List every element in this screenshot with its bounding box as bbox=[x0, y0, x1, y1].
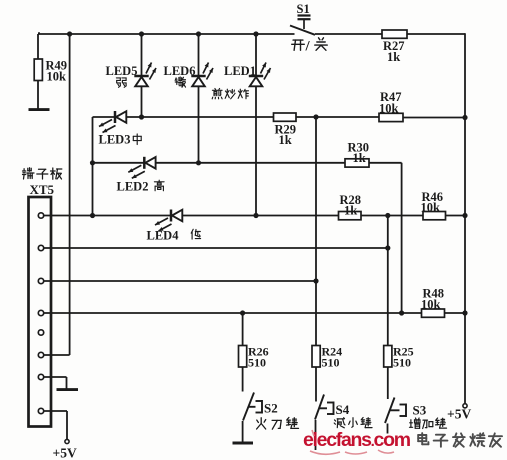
LED4 label bbox=[147, 229, 201, 243]
terminal +5V left bbox=[65, 439, 69, 443]
wire T8 row bbox=[44, 411, 67, 439]
wire R28 to R46 bbox=[361, 215, 423, 217]
wire R49 bottom bbox=[37, 81, 39, 109]
wire T1 row mid bbox=[182, 215, 338, 217]
resistor R28 bbox=[339, 212, 362, 220]
wire x388 upper bbox=[387, 216, 389, 346]
S4 function label 减小键 bbox=[334, 418, 372, 428]
node left-rail/LED2 junction bbox=[90, 160, 95, 165]
resistor R30 bbox=[345, 159, 369, 167]
wire R49 top bbox=[38, 33, 40, 59]
svg-text:10k: 10k bbox=[47, 70, 67, 84]
svg-text:S4: S4 bbox=[336, 402, 350, 417]
node T4/R26 junction bbox=[240, 310, 245, 315]
R24 value label bbox=[322, 345, 343, 370]
svg-text:LED3: LED3 bbox=[99, 133, 131, 147]
LED6 label bbox=[164, 64, 196, 78]
wire left rail x=92.5 bbox=[92, 117, 94, 216]
svg-text:LED1: LED1 bbox=[224, 64, 256, 78]
wire T6 row bbox=[44, 354, 70, 356]
wire T2 row bbox=[44, 247, 388, 249]
svg-text:1k: 1k bbox=[353, 151, 366, 165]
svg-text:10k: 10k bbox=[421, 201, 441, 215]
+5V right label bbox=[447, 407, 471, 422]
watermark red accents bbox=[310, 430, 394, 454]
wire R46 to rail bbox=[446, 215, 466, 217]
node LED1/LED4-wire junction bbox=[253, 213, 258, 218]
node T3/R24-branch junction bbox=[313, 278, 318, 283]
R48 value label bbox=[421, 287, 444, 312]
switch S3 blade bbox=[385, 398, 395, 424]
switch S1 actuator bbox=[298, 16, 311, 30]
wire below S2 bbox=[242, 421, 244, 443]
terminal XT5 pin8 bbox=[38, 408, 43, 413]
node R28/R25-branch junction bbox=[385, 213, 390, 218]
switch S1 label bbox=[297, 2, 310, 16]
wire T4 row bbox=[44, 312, 422, 314]
ground at T7 bbox=[57, 388, 79, 391]
node LED3-row/x316 junction bbox=[313, 114, 318, 119]
wire T1 row left bbox=[44, 215, 171, 217]
wire x243 upper bbox=[242, 313, 244, 346]
node top wire / LED6 junction bbox=[196, 31, 201, 36]
resistor R47 bbox=[379, 113, 403, 121]
wire LED1 riser upper bbox=[255, 34, 257, 76]
wire R30 right bbox=[369, 162, 402, 164]
R28 value label bbox=[340, 193, 362, 218]
svg-text:10k: 10k bbox=[379, 102, 399, 116]
wire R47 to rail bbox=[403, 117, 465, 119]
LED1 label bbox=[224, 64, 256, 78]
LED3 label bbox=[99, 133, 142, 147]
switch S3 actuator bbox=[391, 404, 407, 418]
watermark elecfans.com bbox=[303, 429, 411, 451]
wire LED3 row left bbox=[93, 116, 116, 118]
wire below S3 bbox=[387, 424, 389, 434]
wire LED3 row mid bbox=[126, 116, 273, 118]
svg-text:S2: S2 bbox=[264, 401, 278, 416]
LED LED1 bbox=[249, 63, 271, 87]
node rail/R48 junction bbox=[462, 310, 467, 315]
LED5 function label 弱 bbox=[116, 78, 126, 87]
svg-text:LED2: LED2 bbox=[117, 180, 149, 194]
wire LED1 riser lower bbox=[255, 86, 257, 215]
svg-text:510: 510 bbox=[393, 356, 411, 370]
svg-text:10k: 10k bbox=[421, 298, 441, 312]
resistor R27 bbox=[382, 30, 407, 38]
wire below S4 bbox=[315, 420, 317, 450]
R30 value label bbox=[348, 141, 370, 166]
R46 value label bbox=[421, 190, 444, 215]
wire LED5 riser lower bbox=[141, 86, 143, 117]
LED2 label bbox=[117, 180, 165, 194]
node R30-branch/T4 junction bbox=[399, 310, 404, 315]
S3 function label 增加键 bbox=[410, 418, 447, 429]
S4 label bbox=[336, 402, 350, 417]
switch S2 blade bbox=[243, 393, 254, 421]
LED LED4 bbox=[155, 210, 182, 232]
node LED3-row/LED5 junction bbox=[139, 114, 144, 119]
R25 value label bbox=[393, 345, 414, 370]
svg-text:510: 510 bbox=[322, 356, 340, 370]
LED1 function label 煎炒炸 bbox=[212, 89, 248, 99]
switch S4 actuator bbox=[320, 402, 334, 416]
resistor R49 bbox=[34, 59, 42, 81]
wire T3 row bbox=[44, 280, 316, 282]
node rail/R46 junction bbox=[462, 213, 467, 218]
switch S1 function label 开/关 bbox=[292, 38, 328, 55]
node top wire / LED5 junction bbox=[139, 31, 144, 36]
node LED2-row/LED6 junction bbox=[196, 160, 201, 165]
S2 label bbox=[264, 401, 278, 416]
wire R48 to rail bbox=[445, 312, 466, 314]
LED LED3 bbox=[99, 111, 126, 133]
wire LED5 riser upper bbox=[141, 34, 143, 76]
wire top rail y=34 bbox=[38, 33, 465, 35]
LED LED5 bbox=[134, 63, 156, 87]
svg-text:510: 510 bbox=[248, 356, 266, 370]
R26 value label bbox=[248, 345, 269, 370]
S3 label bbox=[413, 403, 427, 418]
resistor R25 bbox=[384, 346, 392, 368]
svg-text:LED6: LED6 bbox=[164, 64, 196, 78]
switch S1 blade bbox=[290, 26, 315, 35]
wire R25 to S3 bbox=[387, 367, 389, 399]
R47 value label bbox=[379, 90, 402, 116]
wire T7 row bbox=[44, 377, 67, 389]
node top wire / T6 riser junction bbox=[67, 31, 72, 36]
node left-rail/T1 junction bbox=[90, 213, 95, 218]
wire LED6 riser lower bbox=[198, 86, 200, 163]
terminal board XT5 outline bbox=[29, 197, 52, 427]
wire R29 to R47 bbox=[296, 116, 379, 118]
wire R30 branch down x=401.6 bbox=[401, 163, 403, 313]
node T2/R25-branch junction bbox=[385, 245, 390, 250]
svg-text:1k: 1k bbox=[279, 133, 292, 147]
wire LED2 row mid bbox=[156, 162, 345, 164]
node top wire / LED1 junction bbox=[253, 31, 258, 36]
wire R26 to S2 bbox=[242, 367, 244, 392]
resistor R24 bbox=[312, 346, 320, 368]
svg-text:elecfans.com: elecfans.com bbox=[303, 429, 411, 451]
switch S2 actuator bbox=[249, 400, 262, 414]
terminal XT5 pin3 bbox=[38, 278, 43, 283]
terminal XT5 pin5 bbox=[38, 330, 43, 335]
svg-text:LED5: LED5 bbox=[106, 64, 138, 78]
svg-text:/: / bbox=[305, 39, 311, 55]
wire right +5V rail x=465 bbox=[464, 33, 466, 403]
terminal +5V right bbox=[463, 404, 467, 408]
svg-text:S3: S3 bbox=[413, 403, 427, 418]
terminal XT5 pin6 bbox=[38, 352, 43, 357]
wire LED6 riser upper bbox=[198, 34, 200, 76]
terminal XT5 pin4 bbox=[38, 310, 43, 315]
LED LED6 bbox=[191, 63, 213, 87]
R27 value label bbox=[383, 39, 405, 64]
svg-text:1k: 1k bbox=[344, 204, 357, 218]
resistor R48 bbox=[422, 309, 445, 317]
wire x316 upper bbox=[315, 117, 317, 346]
resistor R29 bbox=[274, 113, 297, 121]
wire LED2 row left bbox=[93, 162, 145, 164]
watermark 电子发烧友 bbox=[418, 433, 502, 447]
terminal board label 端子板 XT5 bbox=[23, 168, 62, 197]
node rail/R47 junction bbox=[462, 115, 467, 120]
R29 value label bbox=[275, 123, 297, 148]
LED LED2 bbox=[128, 157, 155, 179]
svg-text:S1: S1 bbox=[297, 2, 310, 16]
LED5 label bbox=[106, 64, 138, 78]
svg-text:LED4: LED4 bbox=[147, 229, 180, 243]
wire T6 riser x=69.6 bbox=[69, 34, 71, 355]
ground below S2 bbox=[233, 442, 254, 445]
S2 function label 火力键 bbox=[257, 418, 299, 430]
svg-text:+5V: +5V bbox=[447, 407, 471, 422]
switch S4 blade bbox=[315, 395, 324, 420]
R49 value label bbox=[46, 59, 68, 84]
LED6 function label 微 bbox=[175, 77, 185, 87]
resistor R26 bbox=[239, 346, 247, 368]
ground below R49 bbox=[29, 108, 50, 111]
terminal XT5 pin7 bbox=[38, 374, 43, 379]
svg-text:+5V: +5V bbox=[53, 446, 77, 460]
svg-text:XT5: XT5 bbox=[30, 182, 55, 197]
terminal XT5 pin1 bbox=[38, 213, 43, 218]
terminal XT5 pin2 bbox=[38, 245, 43, 250]
+5V left label bbox=[53, 446, 77, 460]
wire R24 to S4 bbox=[315, 367, 317, 402]
svg-text:1k: 1k bbox=[387, 50, 400, 64]
resistor R46 bbox=[423, 212, 446, 220]
